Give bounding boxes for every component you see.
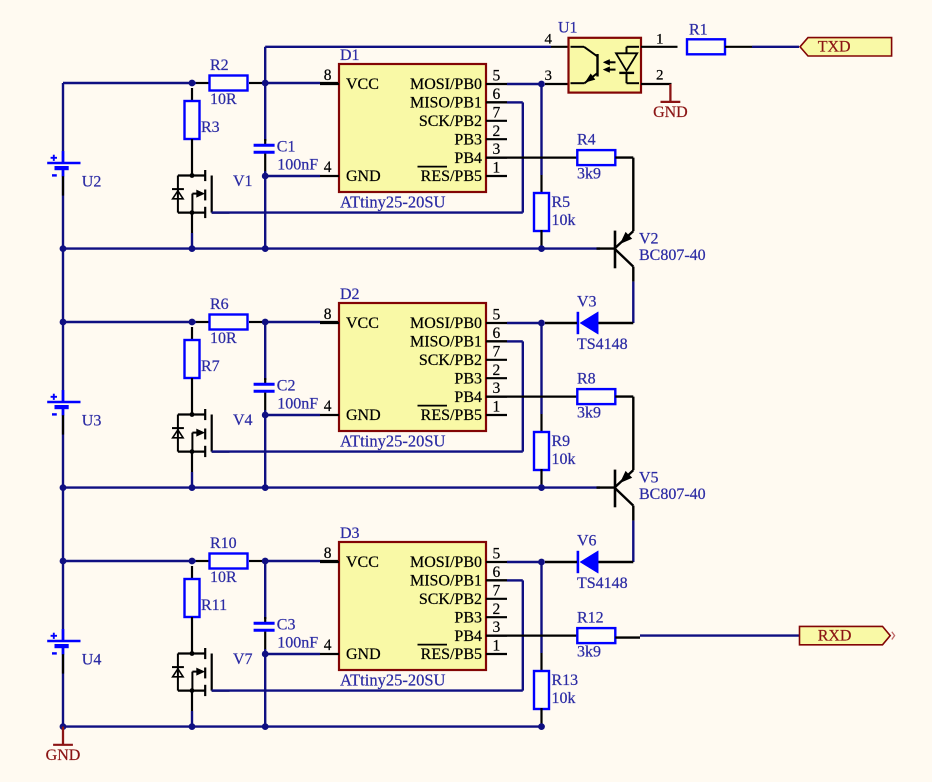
svg-text:ATtiny25-20SU: ATtiny25-20SU	[340, 192, 446, 211]
svg-text:R12: R12	[577, 610, 604, 627]
svg-text:3: 3	[493, 380, 501, 397]
svg-text:TS4148: TS4148	[577, 575, 628, 592]
svg-text:MISO/PB1: MISO/PB1	[410, 334, 482, 351]
svg-text:C2: C2	[277, 378, 296, 395]
svg-text:TS4148: TS4148	[577, 336, 628, 353]
svg-text:V4: V4	[233, 412, 253, 429]
svg-text:8: 8	[324, 306, 332, 323]
svg-text:3: 3	[545, 68, 553, 84]
svg-text:R6: R6	[210, 296, 229, 313]
svg-text:5: 5	[493, 68, 501, 85]
svg-text:10k: 10k	[552, 451, 576, 468]
svg-text:GND: GND	[346, 168, 381, 185]
svg-text:MOSI/PB0: MOSI/PB0	[410, 76, 482, 93]
svg-text:R1: R1	[689, 22, 708, 39]
svg-text:RES/PB5: RES/PB5	[421, 168, 482, 185]
svg-text:RXD: RXD	[818, 627, 852, 644]
svg-text:U2: U2	[82, 173, 102, 190]
svg-text:10R: 10R	[210, 330, 237, 347]
svg-text:3k9: 3k9	[577, 644, 601, 661]
svg-text:R5: R5	[552, 194, 571, 211]
svg-text:8: 8	[324, 545, 332, 562]
svg-text:6: 6	[493, 564, 501, 581]
svg-text:7: 7	[493, 343, 501, 360]
svg-text:V3: V3	[577, 294, 597, 311]
svg-text:2: 2	[656, 68, 664, 84]
svg-text:SCK/PB2: SCK/PB2	[419, 591, 482, 608]
svg-text:D2: D2	[340, 286, 360, 303]
svg-text:V1: V1	[233, 173, 253, 190]
svg-text:V7: V7	[233, 651, 253, 668]
svg-text:C1: C1	[277, 139, 296, 156]
svg-text:PB4: PB4	[454, 389, 482, 406]
svg-text:BC807-40: BC807-40	[639, 247, 706, 264]
svg-text:SCK/PB2: SCK/PB2	[419, 113, 482, 130]
svg-text:PB3: PB3	[454, 609, 482, 626]
svg-text:PB4: PB4	[454, 628, 482, 645]
svg-text:V6: V6	[577, 533, 597, 550]
svg-text:GND: GND	[653, 104, 688, 121]
svg-text:10k: 10k	[552, 212, 576, 229]
svg-text:R3: R3	[201, 119, 220, 136]
svg-text:6: 6	[493, 86, 501, 103]
svg-text:C3: C3	[277, 617, 296, 634]
svg-text:PB3: PB3	[454, 370, 482, 387]
svg-text:10R: 10R	[210, 569, 237, 586]
svg-text:MOSI/PB0: MOSI/PB0	[410, 554, 482, 571]
svg-text:R2: R2	[210, 57, 229, 74]
svg-text:1: 1	[656, 32, 664, 48]
svg-text:4: 4	[324, 159, 332, 176]
svg-text:TXD: TXD	[818, 39, 851, 56]
svg-text:VCC: VCC	[346, 315, 379, 332]
svg-text:MISO/PB1: MISO/PB1	[410, 95, 482, 112]
svg-text:PB3: PB3	[454, 131, 482, 148]
svg-text:4: 4	[545, 32, 553, 48]
svg-text:100nF: 100nF	[277, 156, 318, 173]
svg-text:V5: V5	[639, 470, 659, 487]
svg-text:MISO/PB1: MISO/PB1	[410, 573, 482, 590]
svg-text:GND: GND	[346, 646, 381, 663]
svg-text:3: 3	[493, 141, 501, 158]
svg-text:V2: V2	[639, 231, 659, 248]
svg-text:R7: R7	[201, 358, 220, 375]
svg-text:7: 7	[493, 582, 501, 599]
svg-text:ATtiny25-20SU: ATtiny25-20SU	[340, 431, 446, 450]
svg-text:1: 1	[493, 160, 501, 177]
svg-text:1: 1	[493, 638, 501, 655]
svg-text:VCC: VCC	[346, 554, 379, 571]
svg-text:BC807-40: BC807-40	[639, 486, 706, 503]
svg-text:VCC: VCC	[346, 76, 379, 93]
svg-text:GND: GND	[346, 407, 381, 424]
svg-text:100nF: 100nF	[277, 634, 318, 651]
svg-text:RES/PB5: RES/PB5	[421, 646, 482, 663]
svg-text:R9: R9	[552, 433, 571, 450]
svg-text:U3: U3	[82, 412, 102, 429]
svg-text:3k9: 3k9	[577, 405, 601, 422]
svg-text:7: 7	[493, 104, 501, 121]
svg-text:3: 3	[493, 619, 501, 636]
svg-text:4: 4	[324, 637, 332, 654]
svg-text:R4: R4	[577, 132, 596, 149]
svg-text:U1: U1	[558, 20, 578, 37]
svg-text:R11: R11	[201, 597, 227, 614]
svg-text:2: 2	[493, 362, 501, 379]
svg-text:D1: D1	[340, 47, 360, 64]
svg-text:R10: R10	[210, 535, 237, 552]
svg-text:PB4: PB4	[454, 150, 482, 167]
svg-text:100nF: 100nF	[277, 395, 318, 412]
svg-text:GND: GND	[46, 747, 81, 764]
svg-text:MOSI/PB0: MOSI/PB0	[410, 315, 482, 332]
svg-text:10k: 10k	[552, 690, 576, 707]
svg-text:2: 2	[493, 123, 501, 140]
svg-text:3k9: 3k9	[577, 166, 601, 183]
svg-text:RES/PB5: RES/PB5	[421, 407, 482, 424]
svg-text:5: 5	[493, 307, 501, 324]
svg-text:4: 4	[324, 398, 332, 415]
svg-text:D3: D3	[340, 525, 360, 542]
svg-text:5: 5	[493, 546, 501, 563]
svg-text:2: 2	[493, 601, 501, 618]
svg-text:ATtiny25-20SU: ATtiny25-20SU	[340, 670, 446, 689]
svg-text:6: 6	[493, 325, 501, 342]
svg-text:8: 8	[324, 67, 332, 84]
svg-text:SCK/PB2: SCK/PB2	[419, 352, 482, 369]
svg-text:10R: 10R	[210, 91, 237, 108]
svg-text:1: 1	[493, 399, 501, 416]
svg-text:R13: R13	[552, 672, 579, 689]
svg-text:R8: R8	[577, 371, 596, 388]
svg-text:U4: U4	[82, 651, 102, 668]
